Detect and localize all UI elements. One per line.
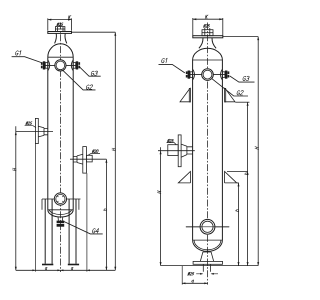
- support height dimension (right vessel): [238, 183, 240, 266]
- label G2 (left vessel) with leader: [63, 70, 96, 90]
- extension from right support lug bottom to dim: [237, 182, 239, 184]
- nozzle axis line (right vessel upper nozzles): [188, 74, 227, 76]
- label Ø25 bottom stub (right vessel): [188, 272, 194, 275]
- label Ø25 mid-left nozzle (left vessel): [26, 122, 32, 125]
- mid-left nozzle (left vessel): [35, 118, 47, 143]
- leg right (left vessel): [69, 199, 76, 264]
- support lug right (right vessel): [225, 171, 237, 183]
- left height dimension line (left vessel): [15, 126, 17, 270]
- support lug left (right vessel): [178, 171, 190, 183]
- bottom pedestal (right vessel): [193, 252, 222, 264]
- label h inner height dim (left vessel): [103, 208, 107, 211]
- label a bottom dim (right vessel): [192, 280, 194, 282]
- lifting lug right (right vessel): [225, 88, 235, 103]
- label Ø25 top nozzle (left vessel): [57, 23, 63, 26]
- label G3 (left vessel) with leader: [80, 67, 101, 76]
- callout Ø20 (mid-right nozzle): [88, 153, 100, 155]
- overall height dimension (right vessel): [257, 37, 259, 266]
- label Ø20 mid-right nozzle (left vessel): [92, 150, 98, 153]
- nozzle neck on head (left vessel): [55, 33, 67, 43]
- label G3 (right vessel) with leader: [230, 76, 255, 82]
- centerline (vertical axis, right vessel): [207, 23, 209, 285]
- middle height dimension (right vessel): [247, 102, 249, 265]
- nozzle axis line (left vessel upper nozzles): [44, 64, 78, 66]
- bottom front-facing nozzle circle (left vessel): [54, 193, 66, 205]
- nozzle G3 (right vessel, right side): [221, 69, 230, 80]
- extension line from flange to right dimension (right vessel): [223, 36, 258, 38]
- nozzle G2 (right vessel, front-facing circle): [202, 69, 214, 81]
- left height dimension (right vessel, from mid nozzle axis): [160, 147, 162, 265]
- shell (right vessel): [193, 60, 223, 240]
- mid-left nozzle axis: [16, 131, 53, 133]
- extension from mid-right nozzle flange: [86, 173, 88, 271]
- dish skirt edges (left vessel): [42, 199, 79, 210]
- top flange plate (left vessel): [48, 32, 72, 34]
- label h middle height dim (right vessel): [244, 172, 248, 175]
- label H overall height dim (right vessel): [255, 147, 259, 150]
- label G1 (right vessel) with leader: [159, 64, 185, 73]
- label H left height dim (left vessel): [13, 168, 17, 171]
- head weld seam (left vessel): [48, 56, 73, 58]
- mid-right nozzle axis: [70, 158, 106, 160]
- label h support height dim (right vessel): [235, 209, 239, 212]
- extension from right lug bottom: [235, 101, 249, 103]
- baseline (right vessel): [161, 265, 259, 267]
- dimension K (top, left vessel): [48, 18, 72, 30]
- extension line from flange to right dimension (left vessel): [72, 31, 116, 33]
- label H left height dim (right vessel): [157, 191, 161, 194]
- lifting lug left (right vessel): [180, 88, 190, 103]
- text G1 (right vessel): [161, 58, 167, 63]
- callout Ø25 (bottom stub, right vessel): [196, 273, 218, 275]
- mid-left nozzle axis (right vessel): [158, 150, 195, 152]
- mid-left nozzle (right vessel): [168, 135, 193, 167]
- nozzle neck on head (right vessel): [199, 38, 216, 49]
- nozzle G1 (left vessel, left side): [41, 60, 50, 71]
- label a right segment (left vessel): [71, 267, 73, 269]
- bottom dished head (left vessel): [48, 209, 73, 211]
- extension from mid-left nozzle flange: [34, 144, 36, 272]
- label H overall height dim (left vessel): [112, 148, 116, 151]
- top nozzle flange pair (left vessel): [55, 27, 65, 32]
- top nozzle flange pair (right vessel): [202, 28, 213, 36]
- text G2 (left vessel): [86, 85, 93, 89]
- centerline (vertical axis, left vessel): [59, 23, 61, 273]
- callout Ø25 (mid-left nozzle): [25, 126, 36, 128]
- shell (left vessel): [48, 57, 73, 210]
- bottom dished head (right vessel): [193, 239, 223, 241]
- bottom dimension chain (left vessel): [16, 269, 116, 271]
- top dished head (left vessel): [48, 44, 73, 57]
- nozzle G3 (left vessel, right side): [71, 60, 80, 71]
- leg left (left vessel): [45, 199, 52, 264]
- dimension a (bottom, right vessel): [181, 266, 183, 285]
- text G3 (left vessel): [91, 71, 98, 75]
- bottom stub through base (right vessel): [203, 264, 210, 271]
- text G2 (right vessel): [237, 91, 244, 95]
- nozzle G2 (left vessel, front-facing circle): [55, 60, 66, 71]
- label K top dim (right vessel): [205, 15, 208, 19]
- label G2 (right vessel) with leader: [212, 78, 248, 96]
- label G4 with leader: [63, 221, 103, 234]
- text G3 (right vessel): [242, 76, 249, 80]
- right inner height dimension (left vessel): [105, 159, 107, 270]
- label G1 (left vessel) with leader: [12, 57, 42, 63]
- top dished head (right vessel): [193, 48, 223, 60]
- label K top dim (left vessel): [68, 15, 71, 19]
- dimension K (top, right vessel): [193, 18, 223, 36]
- bottom nozzle axis line (right vessel): [186, 226, 229, 228]
- top flange plate (right vessel): [193, 36, 223, 38]
- mid-right nozzle (left vessel): [73, 147, 92, 174]
- text G1 (left vessel): [15, 51, 21, 56]
- label Ø25 top nozzle (right vessel): [203, 24, 209, 27]
- bottom nozzle axis line (left vessel): [42, 198, 81, 200]
- text G4 (left vessel): [92, 228, 99, 233]
- callout Ø25 (right vessel mid nozzle): [167, 143, 177, 145]
- nozzle G4 (bottom, left vessel): [57, 217, 65, 227]
- extension from right support lug top: [227, 170, 248, 172]
- label Ø25 mid-left nozzle (right vessel): [167, 139, 173, 142]
- head weld seam (right vessel): [193, 59, 223, 61]
- bottom front-facing nozzle circle (right vessel): [200, 219, 215, 234]
- foot plates (left vessel): [42, 264, 53, 266]
- right outer height dimension (left vessel): [114, 32, 116, 270]
- label a left segment (left vessel): [45, 267, 47, 269]
- nozzle G1 (right vessel, left side): [186, 69, 195, 80]
